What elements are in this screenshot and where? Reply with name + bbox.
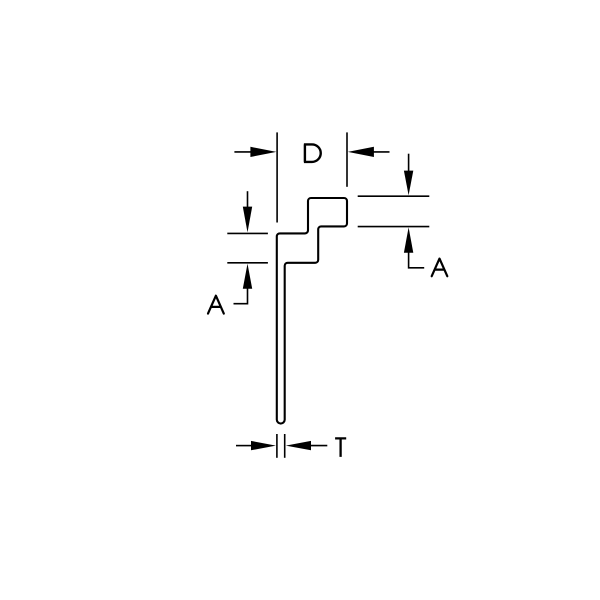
dimension A left extension line bottom — [227, 262, 268, 264]
dimension A right extension line top — [358, 195, 430, 197]
dimension D right arrow — [348, 147, 390, 157]
dimension A left bottom arrow and leader — [234, 264, 253, 304]
profile outline (stepped extrusion cross-section) — [277, 198, 347, 424]
dimension D extension line left — [276, 132, 278, 222]
dimension D left arrow — [234, 147, 276, 157]
label D — [304, 144, 321, 162]
dimension T extension line left — [276, 434, 278, 458]
dimension A left extension line top — [227, 232, 268, 234]
dimension D extension line right — [346, 132, 348, 186]
dimension T left arrow — [236, 441, 276, 450]
label T — [335, 438, 346, 457]
dimension A right top arrow — [404, 154, 413, 196]
label A left — [208, 296, 224, 314]
dimension A right extension line bottom — [358, 226, 430, 228]
dimension T right arrow — [286, 441, 328, 450]
dimension A left top arrow — [243, 191, 252, 232]
dimension A right bottom arrow and leader — [404, 227, 424, 267]
label A right — [432, 259, 448, 277]
dimension T extension line right — [284, 434, 286, 458]
